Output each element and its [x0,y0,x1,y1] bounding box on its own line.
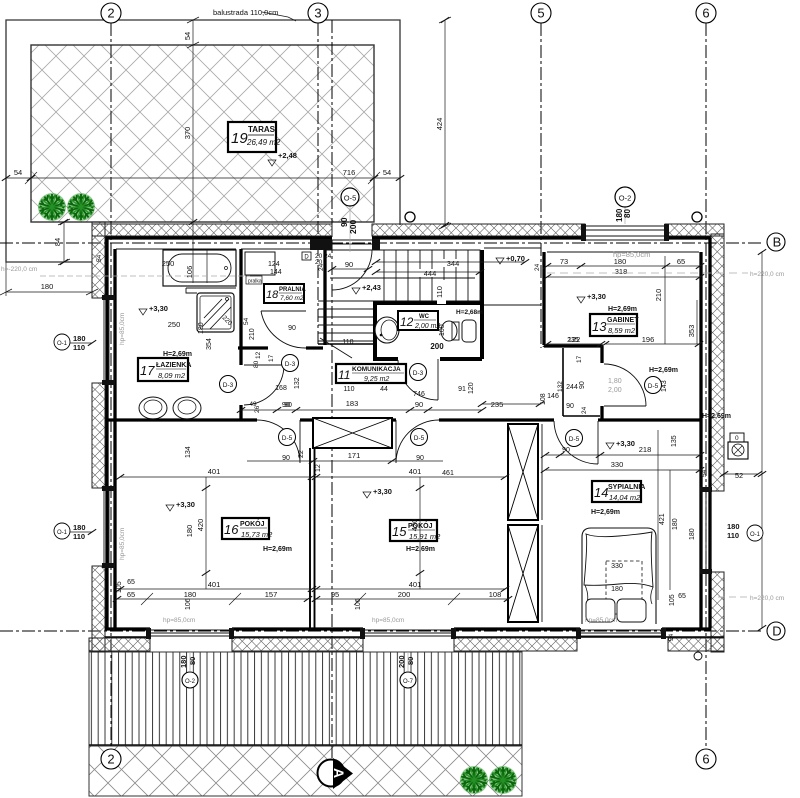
svg-text:44: 44 [380,386,388,393]
svg-text:54: 54 [701,469,708,477]
svg-text:24: 24 [534,263,541,271]
room15 door [396,420,439,463]
svg-text:3: 3 [314,6,321,21]
bedroom door [554,421,598,464]
svg-text:TARAS: TARAS [248,125,276,134]
svg-text:424: 424 [435,118,444,131]
svg-text:52: 52 [735,471,743,480]
svg-text:180: 180 [41,282,54,291]
svg-text:D-5: D-5 [648,383,659,390]
svg-text:180: 180 [611,586,623,593]
tick marks [2,17,766,631]
small post circles [405,212,415,222]
+2,43 level [352,288,360,294]
wc door [398,359,438,400]
svg-text:11: 11 [338,368,350,382]
svg-text:90: 90 [566,403,574,410]
left margin: 180 dim [0,262,98,296]
svg-text:180: 180 [727,522,740,531]
label LAZIENKA [138,358,191,381]
svg-text:D-5: D-5 [414,435,425,442]
svg-text:135: 135 [671,435,678,447]
wardrobe X-box corridor [313,418,392,448]
svg-text:80: 80 [253,360,260,368]
wall under stairs [318,343,373,345]
gabinet door jamb wall [600,346,603,419]
svg-text:12: 12 [400,315,414,329]
gabinet door [604,364,646,406]
bath tub [163,250,236,286]
bed [582,528,656,624]
svg-text:24: 24 [324,253,332,260]
svg-text:h=220,0 cm: h=220,0 cm [750,271,784,278]
svg-text:716: 716 [343,168,356,177]
svg-text:134: 134 [185,446,192,458]
svg-text:370: 370 [183,127,192,140]
svg-text:0: 0 [735,435,739,442]
svg-text:7,60 m2: 7,60 m2 [280,295,304,302]
pier block at stairs top [310,239,332,250]
svg-text:90: 90 [345,260,353,269]
terrace vertical dim line x193 [187,17,207,283]
svg-text:hp=85,0cm: hp=85,0cm [119,313,126,345]
svg-text:132: 132 [557,381,564,392]
svg-text:110: 110 [727,531,739,540]
O-5 marker top [349,206,351,252]
svg-text:157: 157 [265,590,278,599]
svg-text:hp=85,0cm: hp=85,0cm [163,617,195,624]
svg-text:POKÓJ: POKÓJ [240,519,265,528]
svg-text:65: 65 [127,590,135,599]
svg-text:O-2: O-2 [185,679,196,685]
svg-text:15: 15 [392,524,407,539]
label SYPIALNIA [592,481,645,502]
pralnia D box [302,252,311,260]
shower [197,293,234,332]
svg-text:80: 80 [188,657,197,665]
svg-text:180: 180 [73,523,86,532]
tree 3 bottom [460,766,488,794]
room16 door [257,420,300,463]
svg-text:200: 200 [398,590,411,599]
svg-text:17: 17 [140,363,155,378]
svg-text:200: 200 [430,342,444,351]
svg-text:20: 20 [315,253,323,260]
label POKOJ 15 [390,520,441,541]
circle 6 bottom [696,749,716,769]
svg-text:18: 18 [266,289,279,301]
svg-text:54: 54 [96,254,103,262]
svg-text:401: 401 [208,580,221,589]
pralnia door [261,311,306,348]
bathroom+corridor south wall [107,418,554,421]
north window O-2 [585,226,665,240]
svg-text:+3,30: +3,30 [587,292,606,301]
door tag D-5 gabinet [645,377,662,394]
svg-text:330: 330 [611,563,623,570]
west window 1 [104,298,114,382]
corridor lower dim row y461 [247,460,443,462]
door tag D-3 bathroom [220,376,237,393]
svg-text:180: 180 [73,334,86,343]
svg-text:5: 5 [537,6,544,21]
svg-text:90: 90 [284,402,292,409]
svg-text:401: 401 [409,467,422,476]
svg-text:H=2,69m: H=2,69m [163,351,192,358]
svg-text:6: 6 [702,752,709,767]
svg-text:132: 132 [294,377,301,389]
west wall [92,222,105,298]
svg-text:22: 22 [298,450,305,458]
svg-text:105: 105 [669,594,676,606]
svg-text:PRALNIA: PRALNIA [279,287,306,293]
svg-text:235: 235 [567,337,579,344]
WC walls [373,250,482,359]
axis A vertical [331,20,333,758]
svg-text:hp=85,0cm: hp=85,0cm [585,617,617,624]
door tag D-5 room16 [279,429,296,446]
svg-text:16: 16 [224,522,239,537]
label GABINET [590,314,639,336]
svg-text:420: 420 [196,519,205,532]
svg-text:H=2,69m: H=2,69m [591,509,620,516]
svg-text:420: 420 [410,519,419,532]
svg-text:pralka: pralka [248,279,262,285]
south window 3 (bedroom) [580,630,662,636]
svg-text:2: 2 [107,6,114,21]
svg-text:73: 73 [560,257,568,266]
svg-text:746: 746 [413,391,425,398]
svg-text:54: 54 [14,168,22,177]
svg-text:200: 200 [397,655,406,668]
svg-text:ŁAZIENKA: ŁAZIENKA [156,362,191,369]
svg-text:H=2,69m: H=2,69m [406,546,435,553]
svg-text:D-5: D-5 [569,436,580,443]
svg-text:146: 146 [547,393,559,400]
svg-text:hp=85,0cm: hp=85,0cm [613,250,650,259]
circle D right [767,622,785,640]
svg-text:B: B [773,235,782,250]
gabinet south wall [544,344,603,347]
+0,70 level [496,258,504,264]
tree 1 terrace [38,193,66,221]
svg-text:108: 108 [489,590,502,599]
room16 dims [120,477,312,589]
svg-text:O-5: O-5 [344,194,357,203]
terrace outer boundary [6,20,400,262]
marker A bottom [318,758,354,789]
svg-text:9,25 m2: 9,25 m2 [364,376,389,383]
bedroom west wall line [541,424,543,622]
svg-text:110: 110 [342,339,353,346]
circle 5 top [531,3,551,23]
svg-text:90: 90 [288,325,296,332]
svg-text:13: 13 [592,319,607,334]
label POKOJ 16 [222,518,273,539]
svg-text:balustrada 110,0cm: balustrada 110,0cm [213,8,278,17]
door tag D-5 room15 [411,429,428,446]
niche wall left of gabinet door [563,348,600,416]
svg-text:401: 401 [409,580,422,589]
circle B right [767,233,785,251]
svg-text:344: 344 [447,259,460,268]
wall rooms 16/15 [310,448,315,628]
svg-text:H=2,68m: H=2,68m [456,309,483,316]
deck vertical stripes [89,652,522,745]
tree 4 bottom [489,766,517,794]
svg-text:100: 100 [439,324,446,336]
svg-text:KOMUNIKACJA: KOMUNIKACJA [352,366,401,373]
svg-text:14: 14 [594,485,608,500]
circle 3 top [308,3,328,23]
svg-text:200: 200 [348,220,358,234]
svg-text:H=2,69m: H=2,69m [702,413,731,420]
svg-text:17: 17 [268,354,275,362]
svg-text:95: 95 [331,590,339,599]
svg-text:180: 180 [179,655,188,668]
svg-text:O-1: O-1 [750,532,761,538]
svg-text:180: 180 [689,528,696,540]
left margin: 84 dim [58,219,70,265]
north wall line [105,236,711,239]
axis 6 vertical [705,23,707,747]
svg-text:401: 401 [208,467,221,476]
424 dim line [439,17,451,229]
svg-text:17: 17 [576,355,583,363]
svg-text:90: 90 [579,381,586,389]
door tag D-5 bedroom [566,430,583,447]
svg-text:124: 124 [268,261,280,268]
svg-text:D: D [304,255,309,261]
svg-text:+2,43: +2,43 [362,283,381,292]
svg-text:15,91 m2: 15,91 m2 [409,532,441,541]
south insulation [89,638,150,651]
south window 1 [150,630,232,636]
svg-text:90: 90 [415,400,423,409]
window pier blocks [102,224,712,639]
bedroom north wall [598,418,701,421]
svg-text:120: 120 [468,382,475,394]
svg-text:WC: WC [419,314,430,320]
svg-text:hp=85,0cm: hp=85,0cm [372,617,404,624]
svg-text:GABINET: GABINET [607,317,639,324]
svg-text:353: 353 [687,325,696,338]
svg-text:26: 26 [254,405,261,413]
svg-text:54: 54 [383,168,391,177]
svg-text:D-5: D-5 [282,435,293,442]
svg-text:H=2,69m: H=2,69m [608,306,637,313]
wardrobe X-box vertical 1 [508,424,538,520]
west window 2 [104,489,114,566]
svg-text:106: 106 [185,598,192,610]
svg-text:354: 354 [206,338,213,350]
axis D horizontal [0,630,764,632]
svg-text:2: 2 [107,752,114,767]
circle 2 top [101,3,121,23]
label PRALNIA [264,284,306,303]
svg-text:84: 84 [53,238,62,246]
sink 2 [173,397,201,419]
south wall [105,627,711,630]
room15 dims [316,477,505,589]
svg-text:183: 183 [346,399,359,408]
tree 2 terrace [67,193,95,221]
washing machine [245,252,275,275]
svg-text:+3,30: +3,30 [149,304,168,313]
gabinet interior dims [665,256,697,344]
svg-text:143: 143 [661,380,668,392]
svg-text:+3,30: +3,30 [373,487,392,496]
north wall insulation band [92,224,332,236]
gabinet west wall [542,252,545,345]
svg-text:12: 12 [255,351,262,359]
svg-text:A: A [331,768,347,778]
svg-text:65: 65 [677,257,685,266]
svg-text:210: 210 [249,328,256,340]
bathroom door [244,365,284,405]
svg-text:110: 110 [73,343,85,352]
svg-text:2,00: 2,00 [608,387,622,394]
axis 2 vertical [110,23,112,747]
right margin dims [547,272,748,274]
svg-text:D-3: D-3 [413,370,424,377]
bedroom dims [545,455,700,470]
svg-text:196: 196 [642,335,655,344]
svg-text:244: 244 [566,384,578,391]
svg-text:O-2: O-2 [619,194,632,203]
svg-text:421: 421 [659,513,666,525]
svg-text:106: 106 [185,266,194,279]
corridor dims row y410 [241,409,482,411]
svg-text:24: 24 [318,263,325,271]
svg-text:+0,70: +0,70 [506,254,525,263]
O-1 left window 1 [54,334,70,350]
radiator in wc [462,320,476,342]
axis 5 vertical [540,23,542,348]
svg-text:h=220,0 cm: h=220,0 cm [750,595,784,602]
svg-text:110: 110 [343,386,354,393]
svg-text:168: 168 [275,385,287,392]
terrace horizontal dim line y178 [6,172,400,184]
svg-text:D-3: D-3 [285,361,296,368]
svg-text:54: 54 [243,317,250,325]
toilet [452,322,459,340]
svg-text:318: 318 [615,267,628,276]
svg-text:H=2,69m: H=2,69m [263,546,292,553]
svg-text:h=-220,0 cm: h=-220,0 cm [1,266,37,273]
svg-text:106: 106 [355,598,362,610]
svg-text:hp=85,0cm: hp=85,0cm [119,528,126,560]
wardrobe X-box vertical 2 [508,525,538,622]
svg-text:461: 461 [442,470,454,477]
stairs left wall [323,250,326,345]
svg-text:171: 171 [348,451,361,460]
svg-text:8,09 m2: 8,09 m2 [158,371,186,380]
svg-text:+2,48: +2,48 [278,151,297,160]
svg-text:D-3: D-3 [223,382,234,389]
terrace hatch field [31,45,374,222]
svg-text:1,80: 1,80 [608,378,622,385]
svg-text:218: 218 [639,445,652,454]
svg-text:330: 330 [611,460,624,469]
pralnia south wall [238,346,323,349]
O-1 left window 2 [54,523,70,539]
svg-text:210: 210 [654,289,663,302]
svg-text:80: 80 [623,209,632,218]
wc sink oval [375,317,399,343]
circle 6 top [696,3,716,23]
south window 2 [363,630,454,636]
svg-text:444: 444 [424,269,437,278]
svg-text:24: 24 [581,406,588,414]
east wall [711,234,724,491]
svg-text:180: 180 [198,322,205,334]
axis B horizontal [0,242,764,244]
svg-text:180: 180 [185,525,194,538]
svg-text:180: 180 [184,590,197,599]
svg-text:180: 180 [672,518,679,530]
right gray level line [718,596,748,598]
svg-text:19: 19 [231,130,248,147]
svg-text:O-1: O-1 [57,530,68,536]
svg-text:2,00 m2: 2,00 m2 [414,323,440,330]
svg-text:80: 80 [406,657,415,665]
door tag D-3 wc [410,364,427,381]
svg-text:D: D [772,624,781,639]
svg-text:14,04 m2: 14,04 m2 [609,493,641,502]
deck crosshatch band [89,746,522,796]
svg-text:26,49 m2: 26,49 m2 [246,138,281,147]
svg-text:65: 65 [127,579,135,586]
svg-text:90: 90 [416,455,424,462]
svg-text:235: 235 [491,400,504,409]
svg-text:54: 54 [668,633,675,641]
label WC [398,311,440,330]
svg-text:91: 91 [458,386,466,393]
svg-text:54: 54 [183,32,192,40]
svg-text:250: 250 [162,259,175,268]
label TARAS [228,122,281,152]
+2,48 level mark [268,160,276,166]
door tag D-3 pralnia [282,355,299,372]
svg-text:SYPIALNIA: SYPIALNIA [608,484,645,491]
svg-text:110: 110 [435,286,444,298]
terrace door threshold [332,240,372,244]
svg-text:8,59 m2: 8,59 m2 [608,326,636,335]
svg-text:O-1: O-1 [57,341,68,347]
label KOMUNIKACJA [336,364,406,383]
O-2 marker top [624,207,626,224]
axis 3 vertical [317,23,319,345]
east window O-1 [702,491,711,572]
terrace door arc O-5 [332,250,372,290]
sink 1 [139,397,167,419]
circle 2 bottom [101,749,121,769]
svg-text:65: 65 [678,593,686,600]
svg-text:+3,30: +3,30 [176,500,195,509]
svg-text:15,73 m2: 15,73 m2 [241,530,273,539]
svg-text:12: 12 [315,464,322,472]
svg-text:110: 110 [73,532,85,541]
svg-text:144: 144 [270,269,282,276]
svg-text:O-7: O-7 [403,679,414,685]
bathroom east wall [239,249,242,419]
svg-text:6: 6 [702,6,709,21]
svg-text:250: 250 [168,320,181,329]
svg-text:H=2,69m: H=2,69m [649,367,678,374]
svg-text:+3,30: +3,30 [616,439,635,448]
